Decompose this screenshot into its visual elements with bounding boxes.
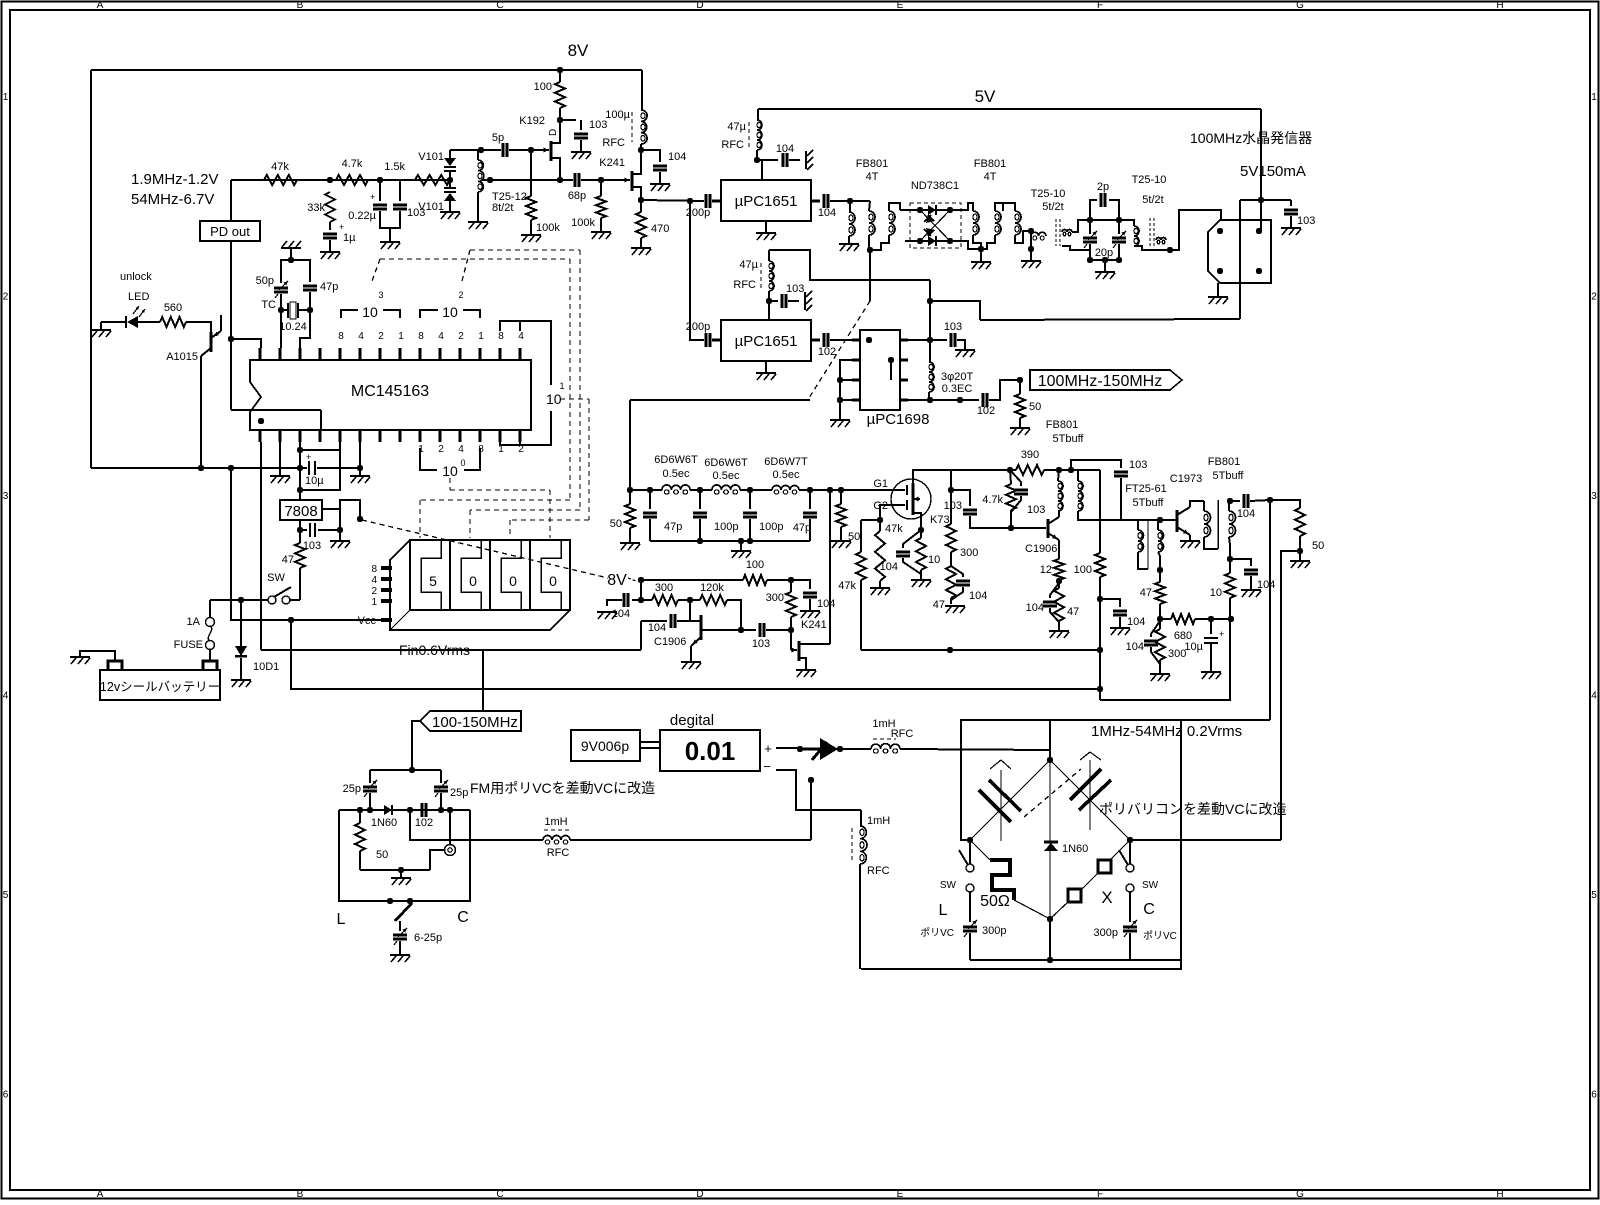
wire 12V rail — [91, 467, 300, 469]
varactor V101 lower — [449, 180, 451, 188]
MC145163 top pin stubs — [258, 348, 261, 360]
svg-text:C: C — [496, 0, 503, 11]
node 7808 bot — [297, 527, 303, 533]
svg-text:102: 102 — [818, 346, 836, 358]
svg-text:7808: 7808 — [284, 503, 317, 520]
wire supply2 down — [1099, 599, 1101, 700]
svg-text:+: + — [339, 222, 344, 232]
node LPF n6 — [838, 487, 844, 493]
module pin 3 — [1217, 268, 1223, 274]
svg-text:5t/2t: 5t/2t — [1042, 201, 1063, 213]
wire loop filter main — [231, 179, 450, 181]
svg-text:10: 10 — [442, 463, 458, 479]
capacitor 104 out1 — [811, 200, 820, 203]
svg-text:104: 104 — [612, 608, 630, 620]
svg-text:E: E — [897, 1189, 904, 1200]
resistor 680 — [1171, 614, 1195, 624]
capacitor 47p — [291, 260, 310, 282]
node minus riser — [808, 777, 814, 783]
node dial top — [409, 767, 415, 773]
node T2510b out — [1167, 247, 1173, 253]
ground 103 7808 — [339, 530, 341, 541]
wire mixer down2 — [869, 250, 871, 301]
capacitor trimmer 20p left — [1089, 220, 1091, 234]
capacitor 10u out — [1210, 619, 1212, 634]
node 8V down — [638, 597, 644, 603]
svg-text:1mH: 1mH — [867, 815, 890, 827]
dashed 10^1 line — [560, 398, 589, 400]
node 7808 top — [297, 487, 303, 493]
wire dial loop — [339, 810, 470, 901]
inductor 47u RFC2 — [769, 261, 774, 271]
svg-text:C: C — [1143, 901, 1155, 918]
wire dial rfc out — [410, 810, 543, 840]
node pd pin junction — [228, 336, 234, 342]
svg-text:unlock: unlock — [120, 271, 152, 283]
svg-text:4.7k: 4.7k — [982, 494, 1003, 506]
wire 1698 left bracket — [840, 360, 852, 400]
svg-text:10µ: 10µ — [1184, 641, 1203, 653]
wire T2510a out bot — [1062, 246, 1090, 250]
node bridge right — [1127, 837, 1133, 843]
svg-text:54MHz-6.7V: 54MHz-6.7V — [131, 191, 214, 208]
svg-text:4: 4 — [458, 444, 464, 455]
svg-text:degital: degital — [670, 712, 714, 729]
svg-text:4: 4 — [438, 331, 444, 342]
wire PD out riser — [230, 180, 232, 221]
ground 1u — [320, 251, 340, 253]
svg-text:100: 100 — [534, 81, 552, 93]
svg-text:T25-10: T25-10 — [1132, 174, 1167, 186]
svg-text:47p: 47p — [320, 281, 338, 293]
node K241b gate — [788, 627, 794, 633]
ground loop filter — [380, 241, 400, 243]
ground 104 fb2 — [1241, 589, 1261, 591]
wire ft input — [1090, 519, 1121, 521]
svg-text:RFC: RFC — [721, 139, 744, 151]
resistor 300 drain — [946, 524, 956, 552]
resistor 50 LPF in — [625, 504, 635, 528]
module pin 1 — [1217, 228, 1223, 234]
capacitor 102 1698 — [982, 393, 985, 407]
resistor 33k — [325, 192, 335, 222]
switch SW C — [1129, 840, 1131, 864]
node RFC2 bottom — [766, 298, 772, 304]
switch dial lever — [395, 903, 412, 921]
capacitor 103 ft — [1071, 460, 1121, 470]
svg-text:100MHz水晶発信器: 100MHz水晶発信器 — [1190, 130, 1312, 146]
node K73 drain — [948, 487, 954, 493]
svg-text:5Tbuff: 5Tbuff — [1053, 433, 1085, 445]
wire 1651b feed — [690, 201, 704, 340]
thumbwheel digits 5000 — [421, 540, 441, 610]
wire tank top rail — [1090, 219, 1119, 221]
resistor 300 ft — [1155, 629, 1165, 660]
svg-text:8t/2t: 8t/2t — [492, 202, 513, 214]
resistor 47k loop filter — [264, 175, 297, 185]
ground LPF — [740, 541, 742, 551]
ground 1651a — [765, 221, 767, 233]
svg-text:T25-10: T25-10 — [1031, 188, 1066, 200]
inductor 3phi20T — [929, 340, 931, 362]
wire 5V rail — [758, 108, 1261, 110]
resistor 47 emitter2 — [1054, 588, 1064, 621]
node dial n1 — [357, 807, 363, 813]
svg-text:0: 0 — [509, 573, 517, 589]
node stage2 supply — [1007, 467, 1013, 473]
svg-text:µPC1651: µPC1651 — [735, 193, 798, 210]
svg-text:G: G — [1296, 0, 1304, 11]
wire fuse line — [210, 599, 268, 601]
wire 1698 gnd — [839, 400, 841, 420]
node FB801 first bottom — [867, 247, 873, 253]
resistor 50 out — [1295, 508, 1305, 536]
svg-text:50: 50 — [1029, 401, 1041, 413]
transformer T25-10 second — [1119, 220, 1134, 226]
svg-text:47k: 47k — [271, 161, 289, 173]
svg-text:103: 103 — [944, 321, 962, 333]
svg-text:10D1: 10D1 — [253, 661, 279, 673]
wire 103 drain gnd — [580, 140, 582, 152]
transistor C1973 — [1176, 510, 1179, 532]
wire bridge right out — [1130, 839, 1281, 841]
node fb out top — [1227, 498, 1233, 504]
svg-text:1MHz-54MHz 0.2Vrms: 1MHz-54MHz 0.2Vrms — [1091, 723, 1242, 740]
wire 104 drain gnd — [659, 172, 661, 184]
capacitor 104 supply3 — [1100, 599, 1120, 607]
node mixer br — [947, 238, 953, 244]
svg-text:1A: 1A — [187, 616, 201, 628]
wire xtal left down — [280, 310, 282, 348]
svg-text:5: 5 — [3, 890, 9, 901]
wire fuse drop — [209, 600, 211, 618]
IC 7808 box — [280, 500, 322, 520]
wire T2510a out top — [1072, 220, 1090, 232]
diode mixer diag1 — [920, 210, 950, 241]
dashed node 8V src — [357, 516, 363, 522]
svg-text:12vシールバッテリー: 12vシールバッテリー — [100, 680, 220, 694]
wire stage2 supply — [951, 469, 1016, 471]
wire bridge br2 — [1050, 902, 1068, 919]
svg-text:+: + — [306, 452, 311, 462]
svg-text:1N60: 1N60 — [1062, 843, 1088, 855]
svg-text:C1906: C1906 — [654, 636, 686, 648]
wire crystal top — [290, 248, 292, 260]
node ft out — [1157, 517, 1163, 523]
svg-text:K241: K241 — [599, 157, 625, 169]
svg-text:5: 5 — [429, 573, 437, 589]
node LPF gnd1 — [697, 538, 703, 544]
ground 50 output1 — [1010, 427, 1030, 429]
IC uPC1698 box — [860, 330, 900, 410]
svg-text:−: − — [763, 759, 771, 774]
diode mixer top — [920, 209, 928, 211]
wire 0.22u lead — [379, 180, 381, 201]
node LPF n1 — [647, 487, 653, 493]
diode LED — [101, 321, 126, 323]
svg-text:FB801: FB801 — [1208, 456, 1240, 468]
wire mixer br step — [961, 203, 973, 211]
wire mixer bottom — [905, 240, 920, 242]
transistor A1015 pnp — [210, 332, 213, 352]
capacitor 50p trimmer — [281, 260, 291, 283]
wire left loop vertical — [90, 70, 92, 468]
resistor 470 — [640, 200, 642, 212]
MC145163 bottom pin stubs — [258, 430, 261, 442]
svg-text:5t/2t: 5t/2t — [1142, 194, 1163, 206]
node LPF gnd3 — [747, 538, 753, 544]
node K192 drain — [557, 117, 563, 123]
node LPF n2 — [697, 487, 703, 493]
svg-text:F: F — [1097, 0, 1103, 11]
wire 680 line down — [1100, 619, 1230, 700]
ground 103 1698 — [955, 349, 975, 351]
transistor C1906 first — [700, 615, 703, 640]
svg-text:100k: 100k — [571, 217, 595, 229]
capacitor 103 drain — [580, 120, 582, 130]
node crystal top — [288, 257, 294, 263]
svg-text:2: 2 — [1591, 292, 1597, 303]
svg-text:103: 103 — [786, 283, 804, 295]
wire bridge center — [1049, 760, 1051, 919]
wire FB801 second gnd — [980, 249, 982, 262]
resistor 47 7808 — [295, 543, 305, 568]
wire minus riser — [810, 780, 812, 840]
diode mixer bottom — [920, 240, 928, 242]
svg-text:104: 104 — [1127, 616, 1145, 628]
resistor 10 source — [916, 538, 926, 570]
capacitor 68p — [574, 173, 577, 187]
svg-text:68p: 68p — [568, 190, 586, 202]
node dial sw L — [387, 898, 393, 904]
svg-text:4: 4 — [3, 691, 9, 702]
node 8V lower — [638, 577, 644, 583]
ground LED — [91, 329, 111, 331]
node output — [1267, 497, 1273, 503]
wire 104 sup right — [791, 580, 810, 589]
wire battery left gnd — [80, 651, 115, 661]
inductor 6D6W6T 2 — [712, 485, 721, 490]
svg-text:50: 50 — [1312, 540, 1324, 552]
node 680 out2 — [1228, 616, 1234, 622]
wire flag riser — [482, 651, 484, 711]
bracket 10^0 — [420, 448, 437, 470]
node 1698 out — [927, 337, 933, 343]
capacitor 103 module — [1290, 200, 1292, 206]
ground 50 LPF — [620, 542, 640, 544]
svg-text:RFC: RFC — [891, 728, 914, 740]
node dial n2 — [367, 807, 373, 813]
MC145163 inner dot — [258, 418, 264, 424]
capacitor 25p right — [440, 770, 442, 783]
capacitor 300p C — [1129, 892, 1131, 922]
connector square 1 — [1098, 860, 1111, 873]
svg-text:2: 2 — [371, 586, 377, 597]
ground 300 ft — [1150, 673, 1170, 675]
wire module output drop — [1239, 200, 1241, 319]
svg-text:3φ20T: 3φ20T — [941, 371, 973, 383]
PD out box — [200, 221, 260, 241]
node T2510a tap — [1028, 228, 1034, 234]
dashed VC gang — [1024, 769, 1081, 817]
node mixer tr — [947, 207, 953, 213]
svg-text:X: X — [1101, 888, 1112, 907]
capacitor 0.22u electrolytic — [373, 204, 387, 207]
wire out riser — [1269, 500, 1271, 720]
resistor 560 — [160, 317, 186, 327]
wire varactor to tank top — [450, 149, 481, 151]
wire Vcc pin 1651b — [768, 301, 770, 320]
wire 47k pair top — [861, 519, 880, 521]
wire 300-47 — [950, 552, 952, 566]
wire 1698 inner — [890, 360, 892, 380]
wire tank bottom rail — [1090, 259, 1119, 261]
svg-text:1: 1 — [478, 331, 484, 342]
svg-text:2p: 2p — [1097, 181, 1109, 193]
svg-text:1N60: 1N60 — [371, 817, 397, 829]
resistor 120k — [700, 595, 727, 605]
svg-text:L: L — [939, 902, 948, 919]
svg-text:C1973: C1973 — [1170, 473, 1202, 485]
svg-text:5Tbuff: 5Tbuff — [1213, 470, 1245, 482]
resistor 4.7k stage2 — [1006, 484, 1016, 510]
resistor 100 drain — [555, 82, 565, 108]
node 1698 left mid — [837, 377, 843, 383]
inductor 1mH RFC3 — [871, 744, 881, 749]
transformer FB801 second — [973, 211, 979, 223]
svg-text:300p: 300p — [982, 925, 1006, 937]
inductor 1mH RFC4 — [860, 810, 862, 826]
svg-text:47: 47 — [1067, 606, 1079, 618]
connector counter — [640, 741, 660, 743]
inductor T25-12 — [478, 160, 483, 171]
transistor C1906 second — [1047, 519, 1050, 538]
svg-text:100p: 100p — [759, 521, 783, 533]
wire LPF drop — [629, 400, 631, 490]
node mixer in — [847, 198, 853, 204]
wire base drop — [689, 600, 691, 621]
transistor K192 mosfet — [544, 148, 550, 153]
svg-text:Vcc: Vcc — [358, 615, 377, 627]
ground 360 — [350, 475, 370, 477]
svg-text:0.5ec: 0.5ec — [773, 469, 800, 481]
wire mixer br step2 — [961, 241, 981, 249]
capacitor 47p LPF1 — [649, 490, 651, 509]
wire module 5V inner — [1260, 200, 1262, 231]
resistor 300 base — [652, 595, 678, 605]
inductor 6D6W7T 3 — [772, 486, 781, 490]
wire 103 loop leads — [399, 180, 401, 201]
bracket 10^2 — [420, 310, 438, 318]
svg-text:0: 0 — [549, 573, 557, 589]
bracket 10^3 — [341, 310, 358, 318]
transformer FT primary — [1058, 481, 1063, 491]
dashed 10^2 line — [470, 249, 580, 251]
wire out feed down — [1281, 551, 1300, 840]
thumbwheel dividers — [449, 540, 451, 610]
node K73 source — [918, 527, 924, 533]
wire 0.22u bottom — [380, 211, 390, 242]
svg-text:K192: K192 — [519, 115, 545, 127]
dashed RFC4 core — [851, 828, 853, 862]
svg-text:RFC: RFC — [547, 847, 570, 859]
dashed RFC3 core — [873, 738, 896, 740]
ground 100k gate — [521, 234, 541, 236]
svg-text:102: 102 — [977, 405, 995, 417]
wire 8V lower rail — [641, 579, 743, 581]
battery terminal left — [108, 661, 122, 670]
node stage2 base — [1008, 525, 1014, 531]
svg-text:5p: 5p — [492, 132, 504, 144]
resistor 100k gate — [530, 150, 532, 196]
dashed RFC1 core — [748, 122, 750, 150]
svg-text:104: 104 — [1126, 641, 1144, 653]
svg-text:100-150MHz: 100-150MHz — [432, 714, 518, 731]
thumbwheel BCD pins — [381, 566, 392, 570]
svg-text:5Tbuff: 5Tbuff — [1133, 497, 1165, 509]
svg-text:C: C — [457, 909, 469, 926]
node 68p out — [598, 177, 604, 183]
capacitor 300p L — [969, 892, 971, 922]
wire squares link — [1082, 872, 1099, 889]
svg-text:2: 2 — [458, 290, 463, 300]
wire 33k to 1u — [329, 222, 331, 230]
svg-text:25p: 25p — [450, 787, 468, 799]
svg-text:33k: 33k — [307, 202, 325, 214]
battery box 12v — [100, 670, 220, 700]
dashed 7808 to 8V — [362, 520, 608, 578]
node LPF n5 — [827, 487, 833, 493]
node dial gnd — [398, 867, 404, 873]
capacitor 2p — [1090, 200, 1097, 220]
node 100 out — [788, 577, 794, 583]
wire 1u to gnd — [329, 240, 331, 252]
svg-text:0.3EC: 0.3EC — [942, 383, 973, 395]
ground 10 source — [911, 579, 931, 581]
wire Vcc riser — [231, 468, 390, 620]
svg-text:4T: 4T — [984, 171, 997, 183]
node fb mid — [1227, 556, 1233, 562]
capacitor 104 emitter2 — [1050, 583, 1059, 598]
svg-text:A1015: A1015 — [166, 351, 198, 363]
inductor T2510a left — [1003, 203, 1015, 211]
connector square 2 — [1068, 889, 1081, 902]
wire 1698 out top — [908, 339, 930, 341]
node ft bottom — [1157, 567, 1163, 573]
svg-text:47: 47 — [933, 599, 945, 611]
ground tank — [1095, 271, 1115, 273]
wire PD into notch — [231, 409, 250, 411]
ground 104 supply2 — [800, 610, 820, 612]
svg-text:ポリバリコンを差動VCに改造: ポリバリコンを差動VCに改造 — [1099, 801, 1286, 817]
resistor 50ohm heater — [990, 860, 1014, 900]
svg-text:G1: G1 — [873, 478, 888, 490]
wire 1698 out riser — [929, 301, 931, 340]
wire drain to 104 — [641, 150, 660, 162]
capacitor 200p in2 — [705, 333, 708, 347]
capacitor 25p left — [369, 770, 371, 783]
node K192 source — [557, 177, 563, 183]
inductor 1mH RFC2 — [543, 836, 552, 841]
svg-text:8: 8 — [338, 331, 344, 342]
wire osc feed drop — [929, 280, 931, 301]
svg-text:10: 10 — [362, 304, 378, 320]
wire 7808 out right — [322, 509, 340, 530]
svg-text:8: 8 — [498, 331, 504, 342]
svg-text:300: 300 — [960, 547, 978, 559]
ground battery — [70, 656, 90, 658]
ground 104 8V — [597, 611, 617, 613]
